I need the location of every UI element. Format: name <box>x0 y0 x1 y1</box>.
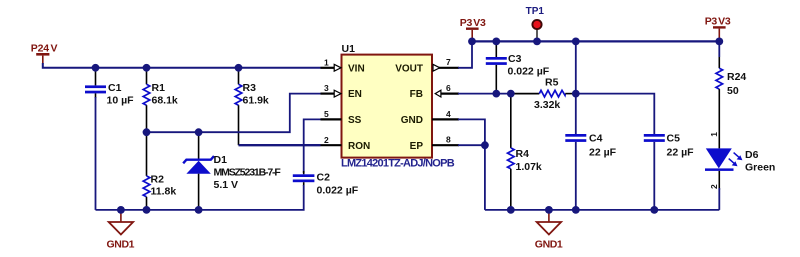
ground GND1 left <box>107 210 135 251</box>
wire LED to gnd rail <box>718 188 720 210</box>
svg-text:8: 8 <box>446 135 451 145</box>
svg-text:C2: C2 <box>317 172 331 184</box>
node VIN junction R3 <box>235 64 243 72</box>
node gnd junction C4 <box>572 206 580 214</box>
svg-text:EP: EP <box>410 141 424 152</box>
svg-text:C4: C4 <box>589 133 603 145</box>
power flag P3V3 right <box>705 15 731 41</box>
capacitor C2 <box>293 171 359 197</box>
svg-text:2: 2 <box>324 135 329 145</box>
svg-text:VOUT: VOUT <box>395 63 423 74</box>
resistor R1 <box>143 68 178 132</box>
zener diode D1 <box>183 132 281 210</box>
svg-text:C3: C3 <box>508 53 522 65</box>
svg-text:P24V: P24V <box>31 42 58 54</box>
svg-text:TP1: TP1 <box>526 6 545 17</box>
resistor R3 <box>235 68 269 145</box>
node EN junction R1/R2 <box>143 128 151 136</box>
pin 3 EN <box>321 83 362 100</box>
pin 2 RON <box>321 135 371 152</box>
svg-text:1: 1 <box>324 57 329 67</box>
node gnd junction D1 <box>195 206 203 214</box>
svg-text:C5: C5 <box>667 133 681 145</box>
svg-text:61.9k: 61.9k <box>243 95 269 107</box>
node junction EP/GND <box>481 141 489 149</box>
svg-text:22 µF: 22 µF <box>667 147 695 159</box>
wire VOUT to FB node <box>575 41 577 93</box>
wire FB net <box>458 93 515 95</box>
svg-text:22 µF: 22 µF <box>589 147 617 159</box>
svg-text:GND: GND <box>401 115 423 126</box>
svg-text:D6: D6 <box>745 149 759 161</box>
svg-text:R24: R24 <box>727 71 746 83</box>
svg-text:2: 2 <box>709 184 719 189</box>
wire SS to C2 <box>304 119 321 173</box>
LED D6 <box>705 132 775 190</box>
node rail junction R24 <box>715 38 723 46</box>
wire VOUT to P3V3 rail <box>458 41 472 67</box>
svg-text:5: 5 <box>324 109 329 119</box>
node gnd junction C5 <box>650 206 658 214</box>
svg-text:C1: C1 <box>108 82 122 94</box>
svg-text:R5: R5 <box>545 76 559 88</box>
svg-text:D1: D1 <box>214 154 228 166</box>
power flag P24V <box>31 42 58 64</box>
node gnd junction GND1 right <box>545 206 553 214</box>
pin 1 VIN <box>321 57 365 74</box>
svg-text:3.32k: 3.32k <box>534 99 560 111</box>
pin 7 VOUT <box>395 57 459 74</box>
svg-text:5.1 V: 5.1 V <box>214 179 239 191</box>
resistor R2 <box>143 132 176 210</box>
resistor R4 <box>508 94 542 210</box>
svg-text:GND1: GND1 <box>107 239 135 251</box>
node rail junction R5/C4 <box>572 38 580 46</box>
svg-text:U1: U1 <box>342 43 356 55</box>
node VIN junction C1 <box>92 64 100 72</box>
svg-text:R4: R4 <box>516 148 530 160</box>
resistor R24 <box>716 57 746 148</box>
svg-text:VIN: VIN <box>348 63 365 74</box>
node rail junction C3 <box>492 38 500 46</box>
wire EN net rail <box>147 94 321 133</box>
node FB junction R5/C4/C5 <box>572 90 580 98</box>
svg-text:LMZ14201TZ-ADJ/NOPB: LMZ14201TZ-ADJ/NOPB <box>341 157 455 169</box>
node gnd junction R4 <box>507 206 515 214</box>
svg-text:EN: EN <box>348 89 362 100</box>
pin 4 GND <box>401 109 459 126</box>
wire C1 to gnd rail <box>95 97 97 210</box>
capacitor C3 <box>486 41 550 93</box>
svg-text:0.022 µF: 0.022 µF <box>508 66 550 78</box>
node gnd junction R2 <box>143 206 151 214</box>
resistor R5 <box>514 76 576 111</box>
node EN junction D1 <box>195 128 203 136</box>
svg-text:11.8k: 11.8k <box>151 186 177 198</box>
wire C2 to gnd rail / left gnd rail <box>96 185 304 210</box>
svg-text:0.022 µF: 0.022 µF <box>317 185 359 197</box>
svg-text:10 µF: 10 µF <box>107 95 135 107</box>
node rail junction VOUT <box>468 38 476 46</box>
svg-text:R1: R1 <box>152 82 166 94</box>
svg-text:50: 50 <box>727 85 739 97</box>
svg-text:MMSZ5231B-7-F: MMSZ5231B-7-F <box>214 167 282 179</box>
wire P24V top rail <box>43 63 321 68</box>
svg-text:RON: RON <box>348 141 370 152</box>
pin 8 EP <box>410 135 459 152</box>
capacitor C5 <box>644 133 694 210</box>
test point TP1 <box>526 6 545 41</box>
wire FB node to C5 <box>576 94 655 134</box>
svg-text:FB: FB <box>410 89 423 100</box>
node rail junction TP1 <box>533 38 541 46</box>
power flag P3V3 mid <box>460 17 486 41</box>
wire RON from R3 <box>239 144 321 146</box>
wire EP pin to gnd node <box>458 144 485 146</box>
wire GND pin to gnd rail <box>458 119 485 209</box>
node FB junction R4 <box>507 90 515 98</box>
capacitor C4 <box>565 94 616 210</box>
svg-text:7: 7 <box>446 57 451 67</box>
node gnd junction GND1 <box>117 206 125 214</box>
svg-text:1: 1 <box>709 132 719 137</box>
svg-text:R3: R3 <box>243 82 257 94</box>
op-amp U1 body <box>341 43 455 169</box>
svg-text:4: 4 <box>446 109 451 119</box>
ground GND1 right <box>535 210 563 251</box>
svg-text:GND1: GND1 <box>535 239 563 251</box>
pin 6 FB <box>410 83 459 100</box>
node VIN junction R1 <box>143 64 151 72</box>
svg-text:R2: R2 <box>151 174 165 186</box>
svg-text:68.1k: 68.1k <box>152 95 178 107</box>
svg-text:3: 3 <box>324 83 329 93</box>
pin 5 SS <box>321 109 362 126</box>
svg-text:P3V3: P3V3 <box>460 17 486 29</box>
capacitor C1 <box>85 68 134 107</box>
svg-text:SS: SS <box>348 115 362 126</box>
wire right gnd rail <box>485 209 719 211</box>
svg-text:6: 6 <box>446 83 451 93</box>
wire P3V3 to R24 <box>718 41 720 57</box>
wire P3V3 top rail <box>472 40 719 42</box>
node FB junction C3 <box>492 90 500 98</box>
svg-text:P3V3: P3V3 <box>705 15 731 27</box>
svg-text:Green: Green <box>745 162 775 174</box>
svg-text:1.07k: 1.07k <box>516 161 542 173</box>
